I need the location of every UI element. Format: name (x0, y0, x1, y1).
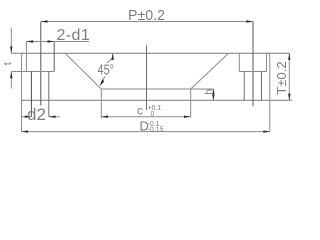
wire right through hole d2 left edge (243, 72, 245, 101)
wire groove right chamfer (191, 53, 229, 89)
wire dimension 2-d1 line (26, 41, 89, 43)
wire c dimension line (101, 116, 190, 118)
wire right counterbore d1 right edge (266, 53, 268, 71)
wire 45deg upper leader (112, 53, 114, 60)
arrow P right (246, 20, 253, 22)
arrow P left (41, 20, 48, 22)
wire right through hole d2 right edge (261, 72, 263, 101)
arrow D right (263, 130, 270, 132)
arrow 2-d1 right (48, 40, 55, 42)
arrow h top (212, 89, 214, 95)
svg-text:c: c (137, 104, 143, 118)
arrow D left (21, 130, 28, 132)
wire left shoulder line (11, 71, 54, 73)
arrow c left (101, 116, 108, 118)
wire h dimension line (212, 89, 214, 100)
wire bottom surface line (22, 99, 293, 101)
arrow t down (10, 47, 12, 54)
arrow h bottom (212, 95, 214, 101)
svg-text:-0.15: -0.15 (148, 127, 164, 134)
wire left through hole d2 left edge (30, 72, 32, 117)
wire left part edge (22, 53, 25, 131)
wire D dimension line (21, 131, 270, 133)
wire right counterbore d1 left edge (238, 53, 240, 71)
wire right part edge (267, 53, 270, 131)
node left hole centerline (40, 22, 42, 106)
arrow 2-d1 left (26, 40, 33, 42)
svg-text:P±0.2: P±0.2 (128, 7, 165, 24)
svg-text:T±0.2: T±0.2 (274, 61, 289, 94)
wire left counterbore d1 right edge (53, 42, 55, 72)
wire c extension left (100, 89, 102, 118)
wire left counterbore d1 left edge (25, 42, 27, 72)
arrow 45 upper (112, 53, 114, 60)
svg-text:0: 0 (151, 111, 155, 118)
svg-text:t: t (2, 62, 14, 65)
wire groove bottom (101, 88, 214, 90)
wire t dimension lower shaft (10, 72, 12, 89)
wire left through hole d2 right edge (48, 72, 50, 117)
wire dimension P line (41, 21, 253, 23)
node groove centerline (146, 45, 148, 110)
svg-text:d2: d2 (27, 105, 46, 124)
wire d2 dimension line left segment (21, 116, 31, 118)
arrow t up (10, 72, 12, 79)
arrow c right (184, 116, 191, 118)
svg-text:2-d1: 2-d1 (57, 27, 91, 44)
wire groove left chamfer 45deg (65, 53, 101, 89)
svg-text:h: h (203, 89, 215, 95)
arrow T bottom (288, 94, 290, 101)
arrow d2 left (25, 116, 32, 118)
arrow 45 lower (100, 79, 104, 85)
wire 45deg lower leader (100, 77, 105, 86)
arrow T top (288, 53, 290, 60)
wire T dimension line (288, 53, 290, 100)
wire top surface line (11, 52, 290, 54)
svg-text:45°: 45° (98, 62, 115, 79)
wire d2 dimension line right segment (49, 116, 60, 118)
wire right shoulder line (239, 71, 266, 73)
arrow d2 right (49, 116, 56, 118)
wire c extension right (190, 89, 192, 118)
node right hole centerline (252, 22, 254, 107)
wire t dimension upper shaft (10, 28, 12, 54)
